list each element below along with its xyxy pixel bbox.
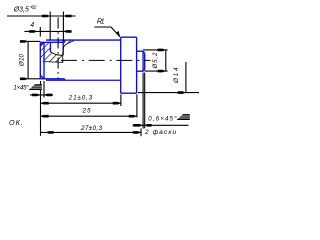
flange dia dim line xyxy=(185,62,187,93)
dim27 right arrow xyxy=(133,131,141,134)
dim21 right arrow xyxy=(113,102,121,105)
R1 leader horizontal xyxy=(94,26,111,28)
top dim line 2 xyxy=(24,30,70,32)
top dim line 1 xyxy=(7,15,76,17)
horizontal centerline xyxy=(61,59,151,61)
stub dia top arrow xyxy=(158,49,166,52)
flange top edge xyxy=(121,36,137,38)
hatch region right of hole, clipped by wavy boundary xyxy=(63,41,74,60)
dim21 left arrow xyxy=(41,102,49,105)
stub chamfer line xyxy=(142,51,144,71)
flange left edge xyxy=(120,37,122,93)
2 faski leader arrow xyxy=(133,124,143,127)
R1 leader diagonal xyxy=(111,27,120,37)
svg-text:1×45°: 1×45° xyxy=(13,84,29,91)
dim27 left arrow xyxy=(46,131,54,134)
ext chamfer line down xyxy=(43,81,45,98)
ext line hole left wall xyxy=(49,12,51,41)
left dia top arrow (pointing up) xyxy=(20,40,28,43)
ext flange-left down xyxy=(120,94,122,106)
dim2 left arrow xyxy=(29,30,37,33)
flange dia ext (flange bottom extended) xyxy=(138,92,199,94)
1x45 note flag (wedge) xyxy=(29,84,42,90)
dim25 left arrow xyxy=(41,115,49,118)
flange bottom edge xyxy=(121,92,137,94)
cylinder top edge (outer dia) xyxy=(46,39,121,41)
chamfer dim right arrow (outside pointing left) xyxy=(44,94,52,97)
0,6x45 note underline xyxy=(133,124,189,126)
svg-text:21±0,3: 21±0,3 xyxy=(68,95,93,102)
dim 27 line xyxy=(41,131,142,133)
dim25 right arrow xyxy=(129,115,137,118)
svg-text:2 фаски: 2 фаски xyxy=(144,129,177,136)
stub dia dim line xyxy=(165,50,167,71)
dim1 left arrow (outside, pointing right) xyxy=(42,15,50,18)
step between left section and cylinder (bottom) xyxy=(64,79,66,80)
left dia dim: bottom ext xyxy=(26,78,40,80)
vertical hole axis xyxy=(57,18,59,80)
stub top edge xyxy=(137,50,144,52)
svg-text:27±0,3: 27±0,3 xyxy=(80,125,102,132)
left dia dim: top ext xyxy=(26,40,40,42)
ext flange-right down xyxy=(136,94,138,117)
ext stub right down xyxy=(144,73,146,129)
stub dia bottom arrow xyxy=(158,70,166,73)
face chamfer diagonal bottom xyxy=(41,75,44,78)
ext line left face up xyxy=(39,27,41,37)
ext left face down xyxy=(40,81,42,136)
stub dia ext bottom xyxy=(145,70,168,72)
left face xyxy=(39,42,41,79)
svg-text:4: 4 xyxy=(30,22,34,29)
stub bottom edge xyxy=(137,70,144,72)
step between left section and cylinder (top) xyxy=(64,40,66,42)
svg-text:+0,2: +0,2 xyxy=(30,5,37,11)
chamfer small dim line xyxy=(30,94,53,96)
hole left wall xyxy=(49,42,51,51)
flange right edge xyxy=(136,37,138,93)
left dia bottom arrow (pointing down) xyxy=(20,78,28,81)
dim 21 line xyxy=(41,102,121,104)
hatch region left of hole xyxy=(41,42,51,62)
svg-text:0,6×45°: 0,6×45° xyxy=(148,115,177,122)
face chamfer diagonal top xyxy=(41,42,44,45)
dim 25 line xyxy=(41,115,137,117)
svg-text:25: 25 xyxy=(82,108,92,115)
hole bottom (drill end) xyxy=(50,52,63,55)
cylinder bottom edge (outer dia) xyxy=(46,79,121,81)
svg-text:ОК.: ОК. xyxy=(9,118,23,127)
stub right face xyxy=(144,53,146,69)
0,6x45 note flag (wedge) xyxy=(177,114,190,120)
left section bottom edge xyxy=(40,78,64,80)
chamfer line at left face xyxy=(43,42,45,79)
dim1 right arrow (outside, pointing left) xyxy=(63,15,71,18)
svg-text:R1: R1 xyxy=(97,18,105,25)
svg-text:Ø3,5: Ø3,5 xyxy=(13,6,29,13)
left section top edge xyxy=(40,41,64,43)
ext stub chamfer down xyxy=(142,73,144,129)
dim2 right arrow xyxy=(63,30,71,33)
svg-text:Ø5,2: Ø5,2 xyxy=(153,52,159,70)
R1 arrowhead xyxy=(116,31,120,38)
flange dia bottom arrow xyxy=(178,91,186,94)
wavy local-section boundary xyxy=(44,41,74,63)
stub dia ext top xyxy=(143,49,168,51)
hatch region below hole bottom xyxy=(50,52,63,62)
ext for 27 dim right xyxy=(140,129,142,137)
svg-text:Ø10: Ø10 xyxy=(18,53,25,67)
svg-text:Ø14: Ø14 xyxy=(173,67,180,84)
stub chamfer top xyxy=(143,51,145,53)
chamfer dim left arrow (outside pointing right) xyxy=(32,94,40,97)
left dia dim: dim line xyxy=(27,41,29,78)
stub chamfer bottom xyxy=(143,70,145,72)
hole right wall xyxy=(62,40,64,55)
ext line hole right wall xyxy=(62,12,64,41)
